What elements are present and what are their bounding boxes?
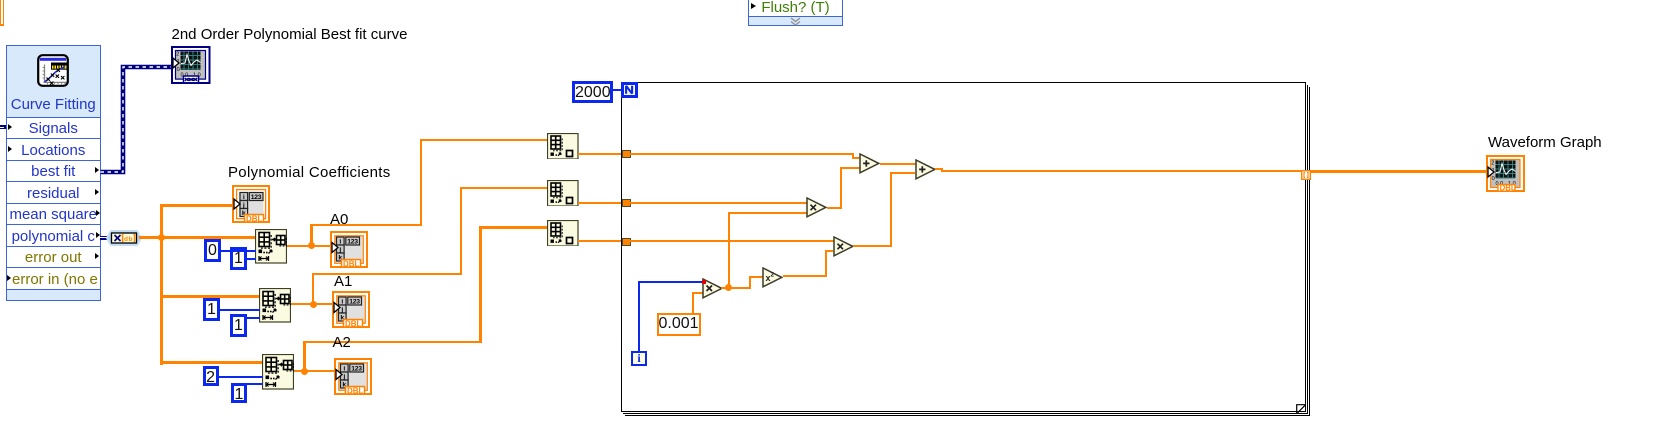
wire small1 -> tunnel1	[578, 153, 622, 155]
blue wires constants -> index nodes	[221, 250, 256, 252]
junction A2	[301, 368, 308, 375]
svg-text:DBL: DBL	[1500, 183, 1516, 192]
wire: index2 out -> A1	[291, 303, 333, 305]
branch up to x(t) multiply	[728, 212, 730, 289]
wire add2 out -> right tunnel	[935, 168, 943, 170]
i iteration terminal	[631, 351, 647, 366]
wire 0.001 -> multiply	[692, 292, 694, 313]
numeric constant 0.001	[657, 313, 701, 336]
branch to Polynomial Coefficients indicator	[160, 204, 234, 207]
index array node 2	[259, 288, 291, 328]
2nd order graph terminal (dynamic, navy)	[171, 46, 211, 89]
junction after multiply	[721, 287, 751, 289]
branch to x^2	[749, 276, 751, 289]
clipped orange frame top-left	[0, 0, 1, 26]
rows	[7, 117, 100, 139]
add 2	[915, 159, 936, 185]
numeric constant 0	[204, 239, 221, 262]
Waveform Graph label	[1488, 135, 1602, 150]
svg-text:DBL: DBL	[246, 214, 263, 223]
N count terminal	[621, 82, 638, 98]
small index array 1	[547, 133, 579, 164]
loop wire 3	[630, 240, 834, 242]
x^2 node	[762, 267, 783, 293]
2D array trunk wire from convert node	[139, 236, 256, 239]
wire small2 -> tunnel2	[578, 202, 622, 204]
numeric constant 1 (node1 len)	[230, 247, 247, 270]
for loop frame	[621, 82, 1305, 412]
wire x^2 -> multiply3	[783, 275, 827, 277]
A2 label	[333, 335, 351, 350]
tunnel 1	[622, 150, 631, 158]
svg-text:0: 0	[1492, 176, 1495, 182]
dynamic data wire: best fit -> 2nd order graph	[96, 58, 186, 183]
wire 2000 -> N	[613, 89, 622, 91]
index array node 1	[255, 229, 287, 269]
numeric constant 2 (node3 idx)	[203, 366, 219, 386]
tunnel 3	[622, 238, 631, 246]
add 1	[859, 153, 880, 179]
numeric constant 1 (node2 idx)	[203, 298, 220, 321]
svg-text:2: 2	[1491, 160, 1494, 166]
small index array 3	[547, 220, 579, 252]
svg-text:0: 0	[177, 67, 180, 73]
Flush? (T) expandable node (clipped at top)	[748, 0, 843, 26]
junction A0	[308, 242, 315, 249]
multiply A1*x	[806, 197, 827, 223]
wire: index3 out -> A2	[294, 370, 336, 372]
Waveform Graph terminal	[1486, 155, 1526, 197]
svg-text:d: d	[124, 236, 128, 243]
small index array 2	[547, 180, 579, 211]
branch to index array 2	[160, 295, 261, 298]
Polynomial Coefficients label	[228, 165, 391, 180]
convert from dynamic data node	[100, 236, 108, 239]
wire: index1 out -> A0	[287, 245, 332, 247]
svg-text:2: 2	[771, 271, 775, 278]
svg-text:123: 123	[251, 194, 262, 201]
wire add1 out	[880, 163, 916, 165]
junction at trunk	[158, 234, 165, 241]
loop shadow line 1	[1307, 85, 1308, 415]
loop fold corner	[1296, 402, 1307, 420]
A0 label	[330, 212, 348, 227]
tunnel 2	[622, 199, 631, 207]
wire riser A0 -> small index 1	[310, 224, 312, 247]
svg-text:b: b	[129, 236, 133, 243]
svg-text:j: j	[242, 202, 245, 209]
multiply (i * 0.001)	[702, 278, 723, 304]
express VI icon	[37, 54, 69, 87]
loop wire 1	[630, 153, 854, 155]
index array node 3	[262, 354, 294, 395]
branch to index array 3	[160, 361, 264, 364]
A2 indicator	[334, 358, 372, 400]
loop wire 2	[630, 202, 808, 204]
numeric constant 2000	[572, 81, 613, 104]
multiply A2*x^2	[833, 236, 854, 262]
right tunnel (auto-indexing)	[1301, 167, 1311, 185]
numeric constant 1 (node2 len)	[230, 314, 247, 337]
shared icon defs	[0, 0, 1, 1]
blue wire i -> multiply	[638, 281, 640, 351]
numeric constant 1 (node3 len)	[231, 383, 247, 403]
wire small3 -> tunnel3	[578, 240, 622, 242]
loop shadow line 2	[1309, 87, 1310, 417]
coercion dot	[702, 280, 706, 284]
title area	[7, 46, 100, 117]
A0 indicator	[330, 231, 368, 273]
A1 label	[334, 274, 352, 289]
svg-text:2: 2	[176, 52, 179, 58]
signals input stub (dynamic wire)	[0, 125, 6, 129]
wire multiply3 out	[853, 245, 892, 247]
2nd Order Polynomial Best fit curve label	[172, 27, 408, 42]
Polynomial Coefficients array indicator	[232, 185, 270, 228]
wire tunnel -> waveform graph	[1310, 170, 1487, 173]
svg-text:i: i	[243, 194, 245, 201]
wire multiply2 out	[827, 207, 842, 209]
A1 indicator	[332, 291, 370, 333]
wire riser A2 -> small index 3	[303, 341, 305, 371]
Curve Fitting express VI	[6, 45, 101, 301]
junction A1	[310, 301, 317, 308]
wire riser A1 -> small index 2	[312, 273, 314, 304]
